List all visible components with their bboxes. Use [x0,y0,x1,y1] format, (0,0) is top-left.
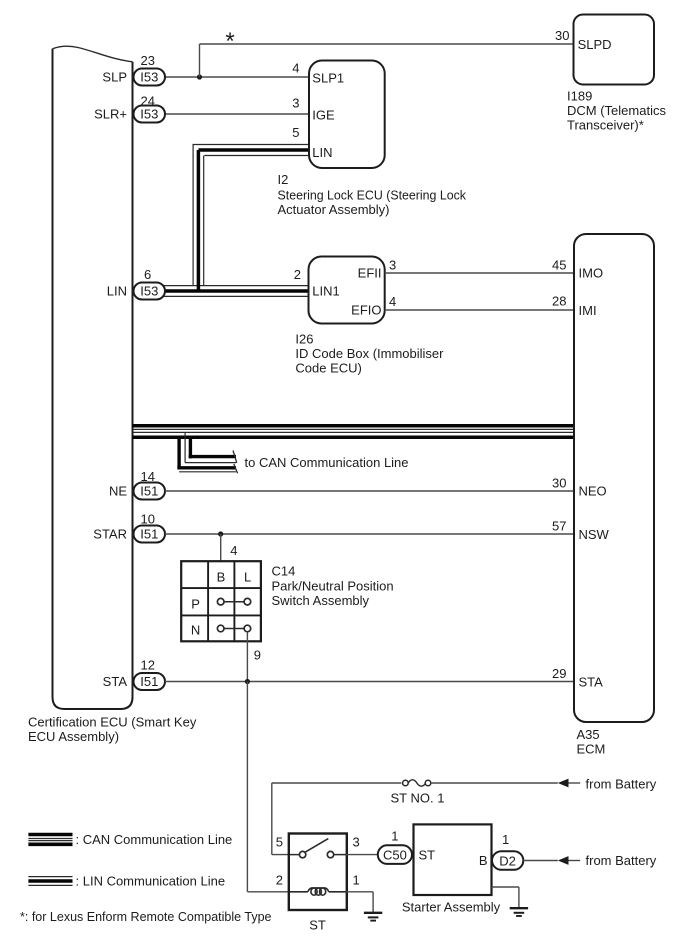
label relay pin 2 [276,873,283,888]
label pin 4 SLP1 [292,61,299,76]
wire NE to NEO pin 30 [165,490,574,492]
svg-text:4: 4 [292,61,299,76]
arrow from Battery (top) [558,777,657,792]
relay ST box [289,834,347,911]
svg-text:STAR: STAR [93,527,127,542]
svg-text:10: 10 [141,512,155,527]
svg-text:1: 1 [502,832,509,847]
svg-text:28: 28 [552,294,566,309]
wire relay pin 3 to C50 [346,854,378,856]
label pin 30 NEO [552,476,566,491]
wire EFII to IMO pin 45 [385,272,574,274]
node junction on STA wire [245,679,250,684]
label Starter Assembly caption [402,900,501,915]
label C14 caption [272,564,394,609]
svg-text:ST NO. 1: ST NO. 1 [391,791,445,806]
label to CAN Communication Line [245,455,409,470]
svg-text:I51: I51 [140,484,158,499]
connector I53 pin 23 SLP [102,53,165,86]
svg-text:SLP: SLP [102,70,127,85]
wire CAN bus (CAN communication line) [133,426,575,438]
svg-text:STA: STA [579,675,604,690]
label pin 45 IMO [552,258,566,273]
svg-text:SLR+: SLR+ [94,107,127,122]
wire fuse to battery arrow [431,782,558,784]
svg-text:29: 29 [552,666,566,681]
label pin 9 C14 [254,648,261,663]
svg-text:ECU Assembly): ECU Assembly) [28,729,119,744]
switch contact P row [217,598,250,605]
svg-text:NEO: NEO [579,484,607,499]
ECU body: Certification ECU (Smart Key ECU Assembly) [53,46,133,709]
svg-text:STA: STA [103,674,128,689]
svg-text:I53: I53 [140,70,158,85]
svg-text:I189: I189 [567,89,592,104]
svg-text:Park/Neutral Position: Park/Neutral Position [272,579,394,594]
wire relay pin 1 to ground [346,892,373,913]
svg-text:EFIO: EFIO [351,303,381,318]
connector C50 pin 1 [378,829,412,864]
label pin 4 C14 [230,543,237,558]
arrow from Battery (bottom) [558,853,657,868]
svg-text:*: for Lexus Enform Remote Com: *: for Lexus Enform Remote Compatible Ty… [20,909,272,924]
legend LIN communication line symbol [28,877,72,886]
label Certification ECU caption [28,715,197,745]
svg-text:: LIN Communication Line: : LIN Communication Line [76,874,226,889]
svg-text:12: 12 [141,658,155,673]
label I189 caption [567,89,666,133]
svg-text:Code ECU): Code ECU) [295,361,361,376]
wire SLR+ I53 to IGE pin 3 [165,113,309,115]
wire branch up from junction [199,44,201,77]
svg-text:IMO: IMO [579,266,604,281]
svg-text:B: B [479,853,488,868]
wire STAR to NSW pin 57 [165,533,574,535]
node junction on STAR wire [218,531,223,536]
label pin 30 SLPD [555,28,569,43]
svg-text:NE: NE [109,484,127,499]
svg-text:I51: I51 [140,527,158,542]
node junction on SLP wire [197,74,202,79]
label pin 2 LIN1 [294,267,301,282]
wire STA to ECM STA pin 29 [165,681,574,683]
wire EFIO to IMI pin 28 [385,309,574,311]
svg-text:5: 5 [292,125,299,140]
wire LIN bus (LIN communication line) oval to LIN1 pin 2 [164,286,309,297]
svg-text:I2: I2 [278,172,289,187]
label footnote [20,909,272,924]
svg-text:4: 4 [230,543,237,558]
svg-text:3: 3 [389,258,396,273]
svg-text:from Battery: from Battery [586,777,657,792]
label pin 29 STA [552,666,566,681]
wire LIN drop from SLP1 pin 5 (LIN communication line) [193,145,204,292]
label pin 28 IMI [552,294,566,309]
svg-text:to CAN Communication Line: to CAN Communication Line [245,455,409,470]
svg-text:Certification ECU (Smart Key: Certification ECU (Smart Key [28,715,197,730]
connector I51 pin 12 STA [103,658,165,691]
box Starter Assembly [414,824,492,895]
wire C14 pin 9 down to STA wire [246,632,248,682]
svg-text:23: 23 [141,53,155,68]
label I2 caption [278,172,467,217]
wire LIN horizontal to SLP1 pin 5 (LIN communication line) [193,145,310,156]
label A35 ECM caption [577,727,606,757]
svg-text:Starter Assembly: Starter Assembly [402,900,501,915]
svg-text:LIN1: LIN1 [312,284,339,299]
svg-text:DCM (Telematics: DCM (Telematics [567,103,666,118]
svg-text:: CAN Communication Line: : CAN Communication Line [76,832,233,847]
svg-text:1: 1 [391,829,398,844]
switch contact N row [217,625,250,632]
label relay pin 1 [353,873,360,888]
connector D2 pin 1 [492,832,523,870]
label LIN legend [76,874,226,889]
relay coil [290,888,346,895]
svg-text:from Battery: from Battery [586,853,657,868]
wire long drop to relay pin 2 [247,682,289,892]
label pin 3 EFII [389,258,396,273]
svg-text:C50: C50 [383,847,407,862]
svg-text:ST: ST [419,848,436,863]
box I189 DCM SLPD [574,15,655,85]
svg-text:45: 45 [552,258,566,273]
svg-text:SLPD: SLPD [578,37,612,52]
label CAN legend [76,832,233,847]
svg-text:SLP1: SLP1 [312,71,344,86]
svg-text:*: * [225,28,234,55]
svg-text:I53: I53 [140,284,158,299]
box A35 ECM [574,234,654,722]
svg-text:IMI: IMI [579,303,597,318]
connector I51 pin 10 STAR [93,512,165,543]
svg-text:IGE: IGE [312,108,335,123]
label relay pin 3 [353,835,360,850]
label pin 3 IGE [292,96,299,111]
svg-text:LIN: LIN [312,145,332,160]
wire to SLPD pin 30 [200,43,574,45]
wire D2 to battery arrow [523,860,558,862]
svg-text:2: 2 [276,873,283,888]
svg-text:P: P [191,597,200,612]
svg-text:EFII: EFII [358,266,382,281]
ground under relay [364,913,382,921]
svg-text:C14: C14 [272,564,296,579]
svg-text:Actuator Assembly): Actuator Assembly) [278,202,390,217]
svg-text:3: 3 [353,835,360,850]
svg-text:30: 30 [552,476,566,491]
ground under starter [510,908,528,916]
connector I51 pin 14 NE [109,469,165,500]
label ST NO. 1 [391,791,445,806]
svg-text:L: L [244,570,251,585]
svg-text:Transceiver)*: Transceiver)* [567,118,644,133]
svg-text:N: N [191,623,200,638]
op-amp box I2 Steering Lock ECU SLP1/IGE/LIN [309,61,385,169]
label pin 5 LIN [292,125,299,140]
fuse ST NO. 1 [403,780,431,786]
wire SLP I53 to SLP1 pin 4 [165,76,309,78]
svg-text:57: 57 [552,519,566,534]
svg-text:6: 6 [144,267,151,282]
label relay pin 5 [276,835,283,850]
label asterisk on SLPD wire [225,28,234,55]
label I26 caption [295,332,444,376]
wire battery feed top: relay pin 5 riser [272,783,402,855]
svg-text:I26: I26 [295,332,313,347]
wire down to C14 pin 4 [220,534,222,562]
svg-text:Steering Lock ECU (Steering Lo: Steering Lock ECU (Steering Lock [278,188,467,203]
svg-text:1: 1 [353,873,360,888]
connector I53 pin 24 SLR+ [94,93,165,122]
label ST relay caption [309,918,326,933]
wire CAN branch stub [177,432,237,473]
connector I53 pin 6 LIN [107,267,165,300]
svg-text:I53: I53 [140,107,158,122]
svg-text:3: 3 [292,96,299,111]
switch C14 Park/Neutral Position grid [181,561,261,641]
svg-text:9: 9 [254,648,261,663]
svg-text:14: 14 [141,469,155,484]
svg-text:LIN: LIN [107,284,127,299]
svg-text:Switch Assembly: Switch Assembly [272,593,370,608]
svg-text:24: 24 [141,93,155,108]
svg-text:A35: A35 [577,727,600,742]
svg-text:ECM: ECM [577,742,606,757]
svg-text:5: 5 [276,835,283,850]
box I26 ID Code Box LIN1/EFII/EFIO [309,257,385,324]
svg-text:B: B [217,570,226,585]
svg-text:ST: ST [309,918,326,933]
label pin 4 EFIO [389,294,396,309]
svg-text:I51: I51 [140,674,158,689]
legend CAN communication line symbol [28,835,72,845]
wire starter to ground [492,887,519,908]
svg-text:30: 30 [555,28,569,43]
svg-text:NSW: NSW [579,527,610,542]
svg-text:4: 4 [389,294,396,309]
svg-text:2: 2 [294,267,301,282]
svg-text:ID Code Box (Immobiliser: ID Code Box (Immobiliser [295,346,444,361]
relay contact [290,839,346,858]
label pin 57 NSW [552,519,566,534]
svg-text:D2: D2 [499,853,516,868]
